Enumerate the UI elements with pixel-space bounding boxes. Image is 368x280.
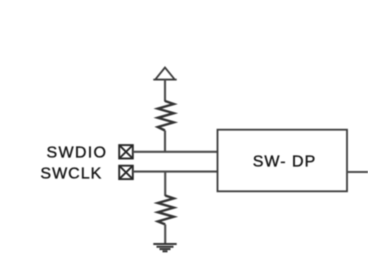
pin SWCLK (boxed X) xyxy=(119,166,133,179)
wire (right of SW-DP) xyxy=(347,171,368,173)
wire SWCLK net xyxy=(133,171,218,173)
wire xyxy=(164,131,166,153)
resistor R2 (pull-down) xyxy=(158,196,174,225)
pin SWDIO (boxed X) xyxy=(119,145,133,158)
wire xyxy=(164,224,166,244)
power symbol VCC xyxy=(153,68,176,80)
resistor R1 (pull-up) xyxy=(158,101,174,131)
svg-text:SWDIO: SWDIO xyxy=(46,144,107,161)
op-amp/block SW-DP box xyxy=(218,130,348,192)
svg-text:SW- DP: SW- DP xyxy=(253,153,316,170)
wire SWDIO net xyxy=(133,151,218,153)
wire xyxy=(164,172,166,196)
ground xyxy=(153,244,176,251)
svg-text:SWCLK: SWCLK xyxy=(40,165,102,182)
wire xyxy=(164,80,166,102)
